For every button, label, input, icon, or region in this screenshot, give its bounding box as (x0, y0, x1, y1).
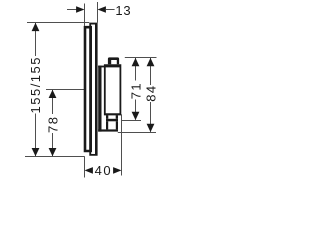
dimension 84: line (147, 58, 155, 132)
rear slab (wall base) (84, 26, 92, 152)
dimension 78: line (49, 90, 57, 157)
svg-text:78: 78 (46, 116, 61, 133)
sleeve top step (98, 66, 104, 68)
sleeve back bar (98, 66, 101, 132)
front plate (escutcheon) (89, 23, 97, 156)
extension line 71 bottom (122, 120, 141, 122)
tab left edge (106, 115, 108, 119)
dimension 13: left tail+arrow (67, 6, 85, 13)
white gap between plate and rear slab repaint (92, 25, 95, 154)
dimension 13: extension line left (84, 4, 86, 26)
dimension 155/155: line (32, 23, 40, 157)
dimension 13: right arrow+tail (98, 6, 115, 13)
sleeve foot (98, 129, 118, 131)
knob cap (108, 57, 119, 64)
dimension 13: extension line right (97, 2, 99, 23)
lower box left column (106, 121, 108, 129)
lower box divider (106, 119, 118, 122)
extension line 84 bottom (118, 132, 156, 134)
knob body (104, 64, 121, 115)
extension line bottom-left (plate bottom) (25, 156, 85, 158)
dimension 40: arrows (85, 167, 122, 174)
extension line knob top (71/84) (125, 57, 157, 59)
svg-text:84: 84 (143, 84, 158, 101)
dimension 71: line (132, 58, 140, 120)
svg-text:71: 71 (128, 82, 143, 99)
svg-text:155/155: 155/155 (28, 56, 43, 114)
extension line top-left (plate top) (27, 22, 89, 24)
extension line 78 top (46, 89, 84, 91)
extension line 40 right (knob face) (121, 114, 123, 175)
svg-text:40: 40 (95, 163, 112, 178)
svg-text:13: 13 (115, 3, 131, 18)
tab right edge (116, 115, 118, 119)
extension line 40 left (84, 157, 86, 178)
lower box right column (116, 121, 118, 129)
